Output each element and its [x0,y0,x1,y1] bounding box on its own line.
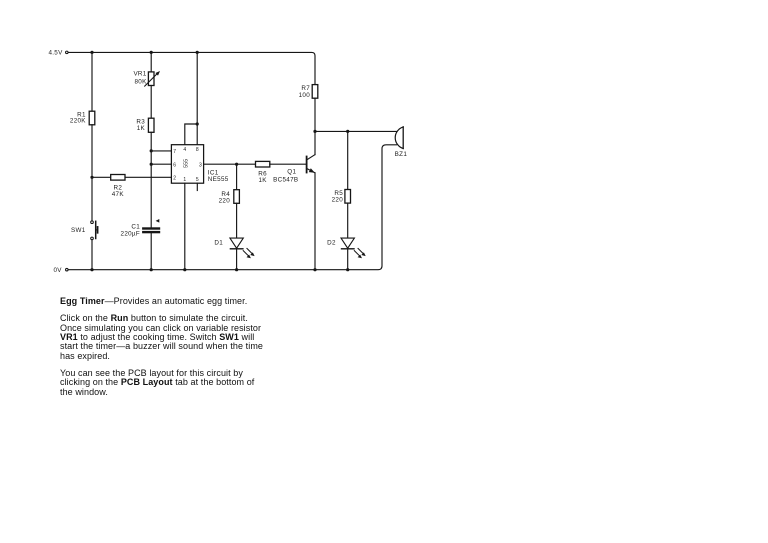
wire pin4 jog [185,124,197,145]
svg-text:NE555: NE555 [208,176,229,183]
svg-text:D2: D2 [327,239,336,246]
wire R1 to SW1 [91,125,93,221]
wire pin2 to R2 [125,176,171,178]
wire R7 to collector node [314,98,316,131]
variable resistor VR1 [133,70,160,86]
wire R6 to Q1 base [270,163,306,165]
caption paragraph 3 [60,369,254,397]
svg-text:7: 7 [173,149,176,155]
junction 0V rail Q1 emitter [313,268,316,271]
svg-text:1K: 1K [137,125,146,132]
wire Q1 collector [314,131,316,154]
svg-text:1: 1 [183,177,186,183]
junction 0V rail pin1 [183,268,186,271]
resistor R5 [332,190,351,204]
junction top rail pin8 [196,51,199,54]
caption paragraph 2 [60,314,263,361]
svg-text:100: 100 [299,92,311,99]
resistor R1 [70,111,95,125]
wire R3 to C1 [150,132,152,227]
junction pin3 / R4 [235,163,238,166]
svg-text:Q1: Q1 [287,168,296,175]
resistor R6 [256,161,270,184]
svg-text:VR1: VR1 [133,70,146,77]
svg-text:4: 4 [183,147,186,153]
capacitor C1 [121,219,161,238]
svg-text:220µF: 220µF [121,231,140,238]
wire pin1 to 0V rail [184,183,186,270]
junction 0V rail SW1 [90,268,93,271]
svg-text:1K: 1K [258,177,267,184]
resistor R4 [219,190,240,205]
wire rail to R1 [91,52,93,111]
buzzer BZ1 [395,127,408,158]
wire C1 to 0V rail [150,233,152,269]
power terminal 4.5V [48,50,68,57]
wire rail to VR1 [150,52,152,72]
svg-text:R7: R7 [301,85,310,92]
svg-text:2: 2 [173,176,176,182]
resistor R3 [136,118,154,132]
svg-text:4.5V: 4.5V [48,50,63,57]
wire R5 to D2 [347,203,349,238]
transistor Q1 [273,155,315,184]
LED D2 [327,238,366,258]
svg-text:5: 5 [196,177,199,183]
junction pin4 jog [196,122,199,125]
wire pin6 [151,163,171,165]
svg-text:555: 555 [184,159,190,168]
svg-text:3: 3 [199,163,202,169]
wire R2 to SW1 branch [92,176,111,178]
wire rail to pin8 [196,52,198,144]
wire pin3 node to R4 [236,164,238,190]
wire node to R5 [347,131,349,189]
wire VR1 to R3 [150,86,152,119]
svg-text:220: 220 [332,197,344,204]
LED D1 [214,238,254,258]
resistor R7 [299,85,318,100]
wire pin3 to R6 [204,163,256,165]
junction 0V rail D1 [235,268,238,271]
svg-text:BZ1: BZ1 [395,151,408,158]
caption paragraph 1 [60,297,247,306]
junction 0V rail D2 [346,268,349,271]
wire SW1 to 0V rail [91,240,93,270]
wire D2 to 0V rail [347,249,349,270]
wire pin5 stub [196,183,198,190]
svg-text:SW1: SW1 [71,227,86,234]
junction 0V rail C1 [150,268,153,271]
svg-text:220: 220 [219,198,231,205]
wire R4 to D1 [236,203,238,238]
svg-text:47K: 47K [112,191,125,198]
wire top rail [68,52,315,84]
svg-text:220K: 220K [70,118,86,125]
svg-text:6: 6 [173,163,176,169]
junction R1-SW1 / R2 [90,176,93,179]
op-amp-style IC U1 NE555 box [171,145,228,184]
svg-text:0V: 0V [53,267,62,274]
svg-text:D1: D1 [214,239,223,246]
svg-text:BC547B: BC547B [273,176,298,183]
junction pin6 [150,163,153,166]
wire D1 to 0V rail [236,249,238,270]
junction collector node [313,130,316,133]
junction top rail R1 [90,51,93,54]
wire Q1 emitter to 0V rail [314,173,316,270]
resistor R2 [111,175,125,199]
switch SW1 [71,221,98,240]
wire collector node to buzzer [315,130,396,132]
junction top rail VR1 [150,51,153,54]
junction R5 branch [346,130,349,133]
wire pin7 [151,150,171,152]
svg-text:8: 8 [196,147,199,153]
wire 0V rail and buzzer return [68,145,396,270]
svg-text:80K: 80K [134,78,147,85]
junction pin7 [150,149,153,152]
ground terminal 0V [53,267,68,274]
